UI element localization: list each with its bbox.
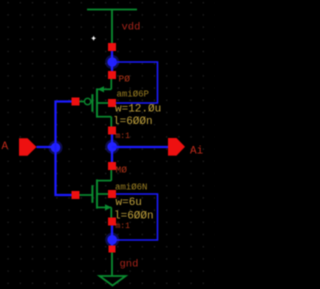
input pin A — [19, 138, 37, 156]
wire to output pin — [112, 146, 168, 148]
junction vdd node — [105, 55, 119, 69]
pin square PMOS bulk — [108, 99, 116, 107]
gnd symbol — [100, 253, 126, 286]
svg-text:l=6ØØn: l=6ØØn — [113, 116, 153, 128]
svg-text:w=12.Øu: w=12.Øu — [115, 104, 161, 116]
wire NMOS bulk route — [114, 194, 158, 240]
drain leg — [110, 170, 112, 181]
gate bar — [91, 185, 93, 203]
pin square NMOS source — [108, 218, 116, 226]
pin square vdd — [108, 43, 116, 51]
pin square NMOS drain — [108, 162, 116, 170]
svg-text:l=6ØØn: l=6ØØn — [114, 211, 154, 223]
pin square NMOS bulk — [108, 190, 116, 198]
svg-text:w=6u: w=6u — [116, 197, 142, 209]
junction input node — [49, 141, 63, 155]
svg-text:A: A — [2, 141, 9, 153]
svg-text:Ai: Ai — [190, 146, 204, 158]
wire output net — [111, 135, 113, 163]
gate stub — [80, 101, 84, 103]
svg-text:MØ: MØ — [116, 165, 128, 176]
cursor sparkle — [91, 36, 96, 41]
wire input to junction — [37, 146, 56, 148]
pin square PMOS source — [108, 71, 116, 79]
junction gnd node — [105, 233, 119, 247]
transistor P0 (pmos ami06P) — [80, 79, 112, 127]
vdd rail symbol — [87, 10, 137, 44]
junction output node — [105, 140, 119, 154]
bulk leg — [97, 102, 108, 104]
svg-text:vdd: vdd — [122, 22, 141, 34]
svg-text:amiØ6P: amiØ6P — [117, 90, 149, 100]
gate bar — [91, 94, 93, 112]
pin square gnd — [109, 246, 116, 253]
wire vdd to PMOS source — [111, 51, 113, 72]
svg-text:m:1: m:1 — [116, 222, 131, 231]
wire gate riser — [56, 102, 72, 196]
wire NMOS source to gnd — [111, 226, 113, 246]
svg-text:m:1: m:1 — [116, 132, 131, 141]
output pin Ai — [168, 138, 185, 156]
source leg — [97, 206, 111, 208]
wire PMOS bulk route — [114, 62, 158, 103]
svg-text:PØ: PØ — [119, 74, 131, 85]
svg-text:amiØ6N: amiØ6N — [115, 183, 147, 193]
source arrow M0 — [105, 204, 111, 210]
svg-text:gnd: gnd — [120, 259, 139, 271]
gate stub — [80, 194, 93, 196]
gate bubble — [84, 98, 90, 104]
pin square PMOS gate — [72, 98, 80, 106]
channel bar — [96, 179, 98, 208]
transistor M0 (nmos ami06N) — [80, 170, 112, 218]
source arrow P0 — [98, 86, 104, 92]
channel bar — [96, 88, 98, 117]
bulk leg — [97, 193, 108, 195]
pin square PMOS drain — [108, 127, 116, 135]
background grid dots — [0, 0, 215, 289]
drain leg — [97, 116, 111, 118]
source leg — [110, 79, 112, 89]
pin square NMOS gate — [72, 191, 80, 199]
